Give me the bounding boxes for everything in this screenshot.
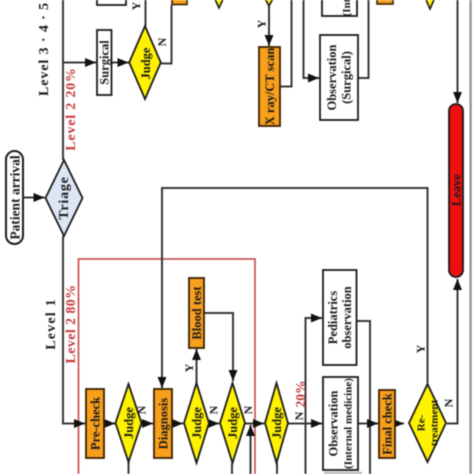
wire Re-treatment N to Leave bbox=[447, 279, 458, 424]
process Pediatrics observation bbox=[323, 270, 357, 365]
shadow under Observation Internal box bbox=[324, 472, 362, 474]
wire Blood test out to Judge3 top bbox=[204, 313, 233, 381]
process Final check bbox=[379, 390, 395, 458]
svg-text:Level 1: Level 1 bbox=[44, 298, 59, 350]
wire Diagnosis to Judge2 bbox=[172, 423, 183, 425]
svg-text:Final check: Final check bbox=[381, 393, 395, 455]
terminator Patient arrival bbox=[6, 151, 23, 244]
svg-text:N: N bbox=[135, 405, 149, 414]
svg-text:Judge: Judge bbox=[139, 47, 153, 79]
svg-text:X ray/CT scan: X ray/CT scan bbox=[263, 48, 277, 126]
wire Judge1 N to Diagnosis bbox=[142, 423, 154, 425]
wire Pediatrics out down bbox=[357, 321, 371, 474]
wire trunk bottom to Pre-check bbox=[63, 236, 85, 424]
wire Observation Internal out to Final check bbox=[358, 423, 378, 425]
wire Judge2 Y up to Blood test bbox=[196, 349, 198, 383]
process Observation (Internal medicine) bbox=[323, 377, 358, 470]
cut box Observation Internal medicine top bbox=[322, 0, 357, 16]
decision Judge4 bbox=[265, 383, 288, 463]
wire Judge4 down bbox=[276, 463, 278, 474]
wire feedback Re-treatment Y to Diagnosis bbox=[162, 188, 428, 388]
cut yellow diamond top B bbox=[263, 0, 276, 6]
svg-text:N: N bbox=[241, 405, 255, 414]
wire Judge3 down bbox=[231, 463, 233, 474]
svg-text:(Internal medicine): (Internal medicine) bbox=[343, 378, 355, 469]
wire Surgical to Judge bbox=[112, 62, 129, 64]
svg-text:Level 2 20%: Level 2 20% bbox=[64, 67, 79, 150]
wire Judge3 N to Judge4 bbox=[245, 423, 264, 425]
decision Judge3 bbox=[220, 383, 245, 463]
svg-text:observation: observation bbox=[340, 286, 354, 349]
red region box Level2 80% bbox=[79, 259, 256, 474]
wire Final check to Re-treatment bbox=[395, 423, 404, 425]
svg-text:N: N bbox=[442, 398, 456, 407]
svg-text:Pre-check: Pre-check bbox=[89, 397, 103, 450]
svg-text:Y: Y bbox=[414, 344, 428, 353]
svg-text:Patient arrival: Patient arrival bbox=[7, 155, 22, 240]
svg-text:treatment: treatment bbox=[429, 400, 441, 447]
cut yellow diamond top C bbox=[424, 0, 437, 9]
process Surgical bbox=[97, 30, 112, 95]
decision Triage bbox=[46, 160, 83, 236]
wire Judge N up to cut orange box bbox=[162, 5, 172, 64]
svg-text:(Surgical): (Surgical) bbox=[340, 51, 354, 104]
wire trunk top bbox=[62, 0, 64, 160]
svg-text:Leave: Leave bbox=[450, 174, 464, 206]
svg-text:Y: Y bbox=[255, 19, 269, 28]
svg-text:N: N bbox=[207, 405, 221, 414]
wire Pre-check to Judge1 bbox=[104, 423, 115, 425]
process Observation (Surgical) bbox=[320, 35, 358, 120]
cut yellow diamond top A bbox=[213, 0, 226, 8]
decision Judge2 bbox=[184, 383, 209, 463]
wire from below up join chain bbox=[250, 425, 252, 474]
svg-text:Level 2 80%: Level 2 80% bbox=[64, 284, 79, 363]
wire top down into Leave bbox=[457, 0, 459, 103]
process X ray/CT scan bbox=[259, 47, 280, 126]
cut orange box top A bbox=[172, 0, 187, 5]
svg-text:Observation: Observation bbox=[327, 390, 341, 456]
svg-text:Observation: Observation bbox=[325, 44, 339, 110]
wire branch up to Pediatrics bbox=[306, 318, 323, 474]
cut orange box top B bbox=[377, 0, 393, 4]
svg-text:(Internal medicine): (Internal medicine) bbox=[341, 0, 353, 16]
svg-text:20%: 20% bbox=[293, 381, 308, 408]
svg-text:Judge: Judge bbox=[226, 407, 240, 439]
wire cut diamond to X-ray box bbox=[268, 6, 270, 46]
wire Judge2 N to Judge3 bbox=[209, 423, 219, 425]
process Blood test bbox=[189, 278, 204, 348]
wire top down into Observation Surgical bbox=[304, 0, 320, 78]
svg-text:Judge: Judge bbox=[270, 407, 284, 439]
svg-text:Diagnosis: Diagnosis bbox=[157, 398, 171, 450]
decision Re-treatment bbox=[409, 384, 446, 462]
svg-text:Pediatrics: Pediatrics bbox=[326, 291, 340, 345]
process Pre-check bbox=[86, 389, 104, 458]
wire branch to Surgical bbox=[63, 62, 96, 64]
wire X-ray out up bbox=[280, 0, 292, 87]
decision Judge1 bbox=[116, 384, 142, 462]
wire Judge1 down bbox=[128, 462, 130, 474]
svg-text:Y: Y bbox=[129, 1, 143, 10]
gray figure border (right edge) bbox=[470, 0, 472, 474]
svg-text:N: N bbox=[155, 37, 169, 46]
svg-text:Y: Y bbox=[182, 363, 196, 372]
process Diagnosis bbox=[154, 389, 172, 458]
wire Judge4 N to Observation Internal bbox=[288, 423, 322, 425]
svg-text:N: N bbox=[292, 411, 306, 420]
svg-text:Level 3 · 4 · 5: Level 3 · 4 · 5 bbox=[37, 2, 52, 96]
wire Judge Y up bbox=[145, 0, 147, 26]
svg-text:Re-: Re- bbox=[416, 414, 428, 431]
terminator Leave bbox=[449, 104, 464, 277]
svg-text:Triage: Triage bbox=[57, 176, 72, 219]
svg-text:Judge: Judge bbox=[190, 407, 204, 439]
svg-text:Surgical: Surgical bbox=[98, 40, 112, 85]
decision Judge surgical bbox=[129, 26, 161, 99]
wire Patient arrival to Triage bbox=[23, 197, 45, 199]
wire Observation Surgical out up bbox=[358, 0, 369, 78]
cut white box top-left bbox=[97, 0, 126, 5]
svg-text:Blood test: Blood test bbox=[190, 286, 204, 340]
